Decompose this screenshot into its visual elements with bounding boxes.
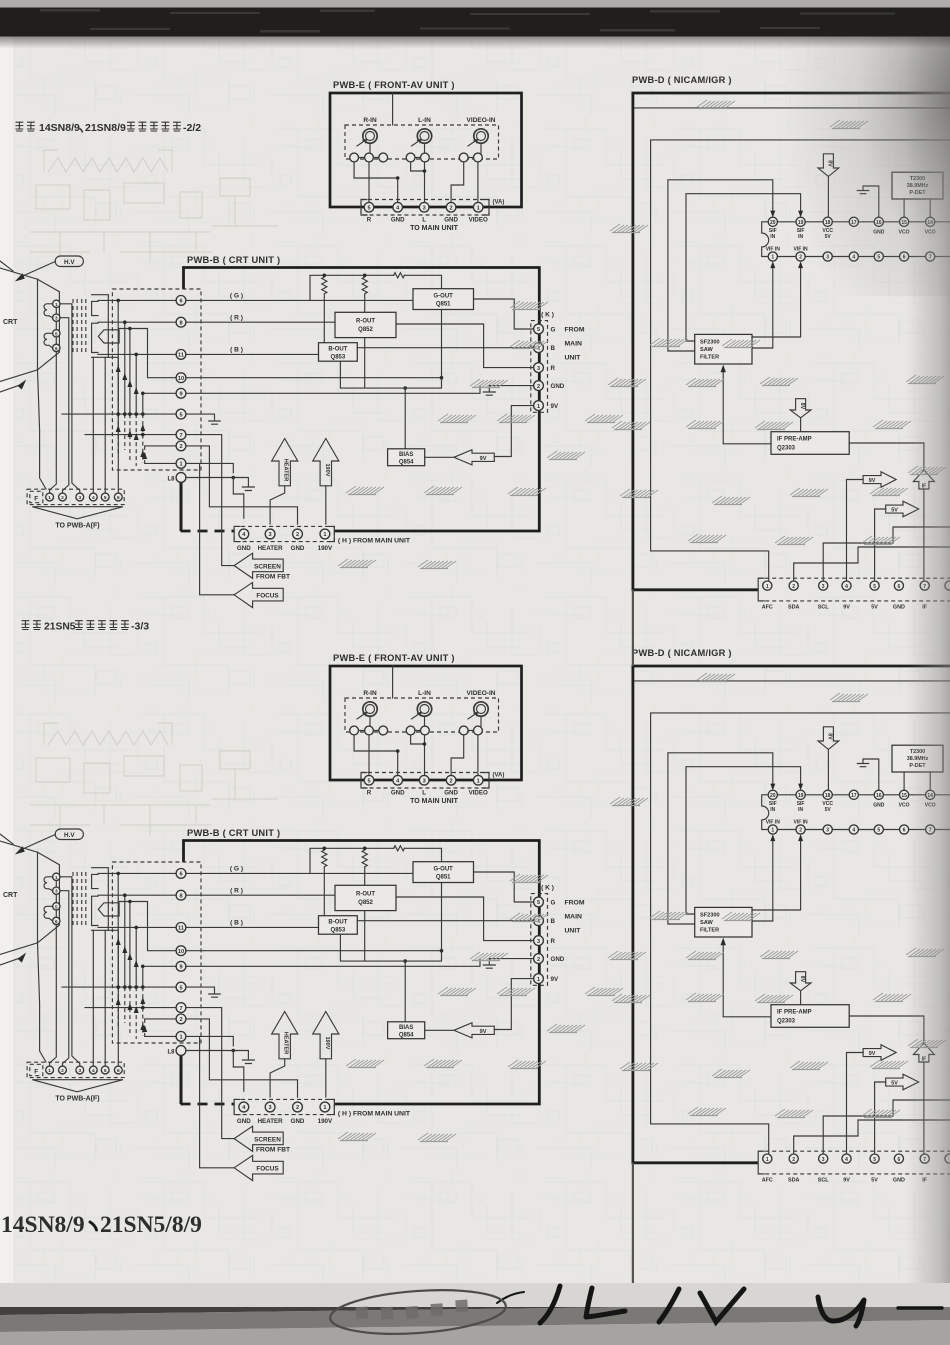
- svg-text:( R ): ( R ): [230, 315, 243, 322]
- wire K1 to 9V arrow: [494, 406, 533, 457]
- svg-text:3: 3: [822, 584, 825, 590]
- 8V supply arrow (preamp): [790, 399, 811, 418]
- svg-text:( B ): ( B ): [230, 347, 243, 354]
- IC pin 3: [823, 252, 832, 261]
- svg-text:BIAS: BIAS: [399, 452, 413, 458]
- connector K pin 4: [534, 343, 544, 353]
- IC pin 6: [900, 252, 909, 261]
- RCA jack L-IN: [412, 129, 432, 146]
- svg-text:3: 3: [423, 205, 426, 211]
- svg-text:1: 1: [766, 584, 769, 590]
- TO PWB-A(F) arrow: [32, 507, 123, 519]
- wire G line pin6: [98, 299, 413, 301]
- IC pin 7: [926, 252, 935, 261]
- svg-text:5: 5: [537, 327, 540, 333]
- H.V lead wire with arrowhead: [15, 262, 55, 282]
- riser arrowheads: [116, 365, 148, 459]
- connector F pin 3: [76, 493, 84, 501]
- PWB-B pin 7: [176, 430, 186, 440]
- wire pin 1 to SAW: [752, 261, 775, 348]
- socket wires to F4 F5 F6: [93, 357, 118, 492]
- svg-text:R: R: [367, 217, 372, 224]
- connector H pin 1: [320, 529, 330, 539]
- SAW filter loop wire to pin 19: [686, 194, 803, 341]
- transistor G-OUT Q851: [413, 289, 474, 310]
- wire 9V arrow to BIAS: [425, 456, 454, 458]
- connector K pin 3: [534, 363, 544, 373]
- connector F pin 6: [114, 493, 122, 501]
- svg-text:1: 1: [477, 205, 480, 211]
- CRT base pin 5: [53, 330, 60, 337]
- transistor B-OUT Q853: [319, 343, 358, 362]
- svg-text:PWB-E ( FRONT-AV UNIT ): PWB-E ( FRONT-AV UNIT ): [333, 80, 455, 90]
- svg-text:8V: 8V: [799, 403, 805, 410]
- wire pin 2 to SAW: [752, 261, 803, 337]
- terminal L8: [167, 473, 185, 483]
- svg-text:R: R: [551, 365, 556, 372]
- IC pin 4: [849, 252, 858, 261]
- CRT wire pin1 to F3: [60, 304, 80, 492]
- svg-text:CRT: CRT: [3, 319, 18, 326]
- svg-text:( K ): ( K ): [541, 312, 554, 319]
- connector H pin 4: [239, 529, 249, 539]
- svg-text:SCL: SCL: [818, 605, 829, 611]
- svg-text:-3/3: -3/3: [131, 621, 149, 633]
- connector VA pin 3: [419, 202, 429, 212]
- svg-text:FOCUS: FOCUS: [256, 593, 279, 600]
- svg-text:TO MAIN UNIT: TO MAIN UNIT: [410, 225, 458, 232]
- H.V terminal: [55, 256, 83, 267]
- svg-text:G-OUT: G-OUT: [434, 293, 454, 299]
- svg-text:SDA: SDA: [788, 605, 799, 611]
- svg-text:9V: 9V: [843, 605, 850, 611]
- funnel corner wire to F area: [38, 370, 47, 489]
- AFC bus wire: [651, 140, 950, 581]
- svg-text:B-OUT: B-OUT: [328, 346, 347, 352]
- wire IF arrow to strip pin 7: [923, 489, 925, 581]
- svg-text:L: L: [422, 217, 426, 224]
- svg-text:21SN5/8/9: 21SN5/8/9: [100, 1212, 202, 1238]
- svg-text:5: 5: [179, 412, 182, 418]
- svg-text:1: 1: [323, 532, 326, 538]
- svg-text:1: 1: [55, 302, 58, 307]
- svg-text:VIDEO: VIDEO: [469, 217, 488, 224]
- jack ground/signal terminal circles: [350, 153, 483, 162]
- CRT funnel flare (upper): [0, 261, 38, 279]
- CRT wire pin6 to F1: [50, 352, 57, 493]
- strip pin 1: [763, 581, 772, 590]
- IC pin 15: [900, 217, 909, 226]
- FOCUS from FBT arrow: [234, 582, 283, 607]
- svg-text:2: 2: [61, 495, 64, 501]
- IC pin 1: [768, 252, 777, 261]
- wire B-OUT to K4: [357, 347, 533, 349]
- wires T2300 to pins 15 14: [904, 199, 930, 217]
- wire K2 to ground: [483, 386, 533, 396]
- PWB-B pin 10: [176, 373, 186, 383]
- svg-text:5: 5: [367, 205, 370, 211]
- svg-text:VIDEO-IN: VIDEO-IN: [467, 117, 496, 124]
- PWB-B pin 8: [176, 317, 186, 327]
- ground for pin 16: [857, 186, 879, 217]
- wire 8V to pin 18: [827, 176, 829, 217]
- 8V supply arrow (VCC): [818, 154, 839, 177]
- wire heater to H3: [270, 486, 285, 524]
- svg-text:9: 9: [179, 392, 182, 398]
- PWB-B pin 11: [176, 350, 186, 360]
- svg-text:Q853: Q853: [331, 354, 346, 360]
- svg-text:9V: 9V: [551, 403, 559, 410]
- svg-text:TO PWB-A(F): TO PWB-A(F): [55, 523, 99, 530]
- strip pin 7: [920, 581, 929, 590]
- svg-text:3: 3: [78, 495, 81, 501]
- svg-text:5: 5: [873, 584, 876, 590]
- connector F strip: [27, 489, 124, 504]
- svg-text:Q852: Q852: [358, 327, 373, 333]
- strip pin 5: [870, 581, 879, 590]
- svg-text:4: 4: [845, 584, 848, 590]
- svg-text:5: 5: [104, 495, 107, 501]
- svg-text:190V: 190V: [318, 545, 333, 552]
- ghost print-through texture cluster: [30, 150, 278, 262]
- round service stamp: [329, 1285, 508, 1339]
- connector H dashed strip: [234, 526, 334, 541]
- PWB-E (FRONT-AV UNIT) board outline: [330, 93, 522, 207]
- svg-text:FILTER: FILTER: [700, 354, 719, 360]
- PWB-B pin 9: [176, 388, 186, 398]
- connector VA pin 4: [393, 202, 403, 212]
- svg-text:( G ): ( G ): [230, 293, 243, 300]
- 190V supply arrow: [313, 439, 339, 486]
- svg-text:2: 2: [537, 384, 540, 390]
- svg-text:8: 8: [179, 320, 182, 326]
- IC IX2300 body: [762, 222, 950, 257]
- svg-text:21SN8/9: 21SN8/9: [85, 122, 126, 134]
- svg-text:2: 2: [179, 444, 182, 450]
- SCL staircase wire: [823, 527, 950, 581]
- svg-text:GND: GND: [237, 545, 251, 552]
- svg-text:PWB-D ( NICAM/IGR ): PWB-D ( NICAM/IGR ): [632, 75, 732, 85]
- bottom connector strip dashed: [758, 578, 950, 601]
- IC pin 18: [823, 217, 832, 226]
- svg-text:11: 11: [178, 353, 184, 359]
- FROM MAIN UNIT label: [565, 327, 585, 362]
- connector K pin 5: [534, 324, 544, 334]
- lower bias rail: [340, 310, 441, 449]
- CRT drive input dashed box: [112, 289, 201, 470]
- svg-text:L8: L8: [167, 477, 175, 483]
- svg-text:6: 6: [898, 584, 901, 590]
- rail junction dots: [323, 274, 444, 390]
- 5V distribution arrow: [886, 501, 919, 517]
- socket dashed pin lines: [73, 299, 86, 354]
- svg-text:9V: 9V: [480, 456, 487, 462]
- connector K pin 1: [534, 401, 544, 411]
- svg-text:2: 2: [450, 205, 453, 211]
- IC pin 19: [796, 217, 805, 226]
- wire strip pin5 to 5V arrow: [875, 509, 886, 581]
- svg-text:3: 3: [269, 532, 272, 538]
- svg-text:14SN8/9: 14SN8/9: [39, 122, 80, 134]
- IC pin function labels: [766, 228, 936, 253]
- connector F pin 2: [59, 493, 67, 501]
- svg-text:SCREEN: SCREEN: [254, 563, 281, 570]
- svg-text:SAW: SAW: [700, 347, 713, 353]
- wire R line pin8: [98, 321, 335, 323]
- page crease line: [632, 590, 634, 1288]
- grid riser lines inside input box: [118, 300, 143, 414]
- IC pin 20: [768, 217, 777, 226]
- socket plug arrow: [98, 330, 119, 343]
- RCA jack VIDEO-IN: [468, 129, 488, 146]
- svg-text:PWB-B ( CRT UNIT ): PWB-B ( CRT UNIT ): [187, 255, 280, 265]
- resistor R (horizontal): [394, 273, 405, 278]
- svg-text:10: 10: [178, 376, 184, 382]
- IF pre-amp Q2303: [771, 432, 849, 455]
- wire R-OUT to K3: [396, 324, 534, 368]
- svg-text:3: 3: [55, 316, 58, 321]
- wire B line pin11: [98, 353, 319, 355]
- connector K dashed box: [531, 321, 548, 413]
- svg-text:IF PRE-AMP: IF PRE-AMP: [777, 437, 812, 443]
- wire 8V to preamp: [800, 418, 802, 432]
- strip pin 8 partial: [945, 581, 950, 590]
- connector H pin 3: [265, 529, 275, 539]
- strip pin 4: [842, 581, 851, 590]
- strip pin 6: [894, 581, 903, 590]
- junction dots on risers: [116, 299, 235, 480]
- PWB-B pin 6: [176, 296, 186, 306]
- PWB-B pin 2: [176, 441, 186, 451]
- connector F pin 5: [101, 493, 109, 501]
- wire pin10 riser to socket plug: [119, 329, 441, 378]
- svg-text:IN: IN: [770, 234, 775, 240]
- svg-text:UNIT: UNIT: [565, 355, 582, 362]
- ideographic comma: [90, 1222, 97, 1230]
- svg-text:GND: GND: [551, 383, 565, 390]
- PWB-E internal wires: [354, 143, 481, 202]
- svg-text:21SN5: 21SN5: [44, 622, 76, 633]
- connector F pin 1: [46, 493, 54, 501]
- PWB-D (NICAM/IGR) board outline: [633, 93, 950, 590]
- wire pin2 left stub: [145, 445, 176, 447]
- IC pin 17: [849, 217, 858, 226]
- svg-text:Q2303: Q2303: [777, 446, 796, 452]
- wire L8 to gnd and H4: [186, 478, 254, 519]
- wire 190V to H1: [325, 486, 327, 524]
- transistor BIAS Q854: [388, 449, 425, 466]
- connector H pin 2: [293, 529, 303, 539]
- connector VA pin 5: [364, 202, 374, 212]
- CRT heater coils: [44, 304, 53, 348]
- resistor (vertical, G feed): [322, 277, 327, 343]
- resistor (vertical, R feed): [362, 277, 367, 312]
- svg-text:HEATER: HEATER: [258, 545, 284, 552]
- svg-text:6: 6: [179, 299, 182, 305]
- IC pin 14: [926, 217, 935, 226]
- svg-text:5V: 5V: [871, 605, 878, 611]
- PWB-B thick left ground lead below L8: [180, 483, 183, 532]
- svg-text:5: 5: [55, 331, 58, 336]
- CRT base pin 6: [53, 344, 60, 351]
- junction dots: [396, 176, 400, 180]
- IC pin 2: [796, 252, 805, 261]
- CRT funnel flare (lower) with arrowhead: [0, 370, 38, 392]
- wire pin7 to screen riser: [85, 435, 234, 566]
- svg-text:MAIN: MAIN: [565, 341, 582, 348]
- SAW filter SF2300: [695, 334, 752, 364]
- svg-text:FROM FBT: FROM FBT: [256, 574, 290, 581]
- IF output arrow: [913, 470, 934, 489]
- svg-text:R-OUT: R-OUT: [356, 318, 375, 324]
- PWB-B pin 1: [176, 459, 186, 469]
- wire IF preamp to SAW with arrow: [721, 365, 772, 444]
- svg-text:4: 4: [92, 495, 95, 501]
- SCREEN from FBT arrow: [234, 553, 283, 578]
- transformer T2300 38.9MHz P-DET: [892, 172, 943, 199]
- CRT base pin 3: [53, 314, 60, 321]
- svg-text:SF2300: SF2300: [700, 339, 720, 345]
- svg-text:6: 6: [55, 346, 58, 351]
- transistor R-OUT Q852: [335, 312, 396, 337]
- wire G-OUT to K5: [474, 299, 534, 329]
- svg-text:L-IN: L-IN: [418, 117, 431, 124]
- right edge scan shadow: [906, 36, 950, 1294]
- 9V feed arrow: [454, 450, 494, 465]
- top black scan bar: [0, 8, 950, 37]
- SAW filter loop wire to pin 20: [668, 180, 775, 351]
- bottom scan zone: [0, 1283, 950, 1345]
- svg-text:Q854: Q854: [399, 459, 414, 465]
- svg-text:HEATER: HEATER: [283, 459, 289, 482]
- HEATER supply arrow: [272, 439, 298, 486]
- svg-text:3: 3: [537, 366, 540, 372]
- svg-text:1: 1: [179, 462, 182, 468]
- wire pin2 to heater gnd pin: [186, 446, 298, 524]
- connector F pin 4: [89, 493, 97, 501]
- svg-text:14SN8/9: 14SN8/9: [1, 1212, 85, 1238]
- connector VA pin 1: [473, 202, 483, 212]
- VA pin labels: [367, 217, 488, 224]
- svg-text:2: 2: [792, 584, 795, 590]
- handwriting marks: [497, 1286, 942, 1326]
- diagram 1 title: [16, 122, 202, 134]
- supply rail with resistors: [310, 275, 442, 300]
- svg-text:GND: GND: [391, 217, 405, 224]
- input jacks dashed enclosure: [345, 125, 499, 159]
- svg-text:2: 2: [296, 532, 299, 538]
- svg-text:1: 1: [537, 404, 540, 410]
- CRT pin link segments: [55, 308, 57, 345]
- top scan margin strip: [0, 0, 950, 8]
- dashed riser continuations with arrows: [118, 414, 145, 466]
- svg-text:Q851: Q851: [436, 301, 451, 307]
- svg-text:20: 20: [770, 220, 776, 226]
- svg-text:AFC: AFC: [762, 605, 773, 611]
- inner bus wire upper: [634, 107, 950, 109]
- PWB-B bottom dashed thick border: [181, 530, 235, 533]
- CRT socket box: [92, 295, 109, 358]
- H pin labels: [237, 545, 333, 552]
- svg-text:190V: 190V: [324, 463, 330, 476]
- socket contact bracket lower: [92, 323, 98, 352]
- CRT base pin 1: [53, 300, 60, 307]
- IC pin 16: [874, 217, 883, 226]
- svg-text:6: 6: [117, 495, 120, 501]
- second diagram copy (21SN5): [0, 648, 950, 1184]
- svg-text:F: F: [34, 496, 38, 503]
- connector VA pin 2: [446, 202, 456, 212]
- svg-text:B: B: [551, 345, 556, 352]
- connector K pin 2: [534, 381, 544, 391]
- svg-text:-2/2: -2/2: [183, 122, 201, 134]
- svg-text:5V: 5V: [891, 508, 898, 514]
- wire pin5 bus with socket feed: [62, 414, 220, 424]
- CRT wire pin3 to F2: [60, 318, 69, 492]
- CRT neck trapezoid: [38, 279, 60, 370]
- 9V distribution arrow: [863, 472, 896, 488]
- connector (VA) strip to main unit: [361, 200, 489, 216]
- wire pin1 and focus riser: [145, 463, 234, 594]
- diagram 2 title: [22, 621, 150, 633]
- svg-text:GND: GND: [444, 217, 458, 224]
- svg-text:H.V: H.V: [64, 259, 75, 266]
- svg-text:VIF IN: VIF IN: [766, 247, 781, 253]
- svg-text:1: 1: [48, 495, 51, 501]
- wire preamp out to IF arrow and pin7: [849, 443, 924, 470]
- RCA jack R-IN: [357, 129, 377, 146]
- wire stub from top border: [392, 93, 394, 125]
- svg-text:( H ) FROM MAIN UNIT: ( H ) FROM MAIN UNIT: [338, 538, 411, 545]
- socket contact bracket upper: [92, 301, 98, 315]
- PWB-B (CRT UNIT) board outline: [184, 268, 540, 532]
- svg-text:FROM: FROM: [565, 327, 585, 334]
- scan noise hatch marks: [338, 100, 946, 569]
- svg-text:9V: 9V: [869, 478, 876, 484]
- svg-text:GND: GND: [291, 545, 305, 552]
- wire strip pin4 to 9V arrow: [847, 480, 864, 582]
- wire pin9 to gnd rail: [143, 386, 480, 393]
- SDA staircase wire: [794, 547, 950, 581]
- svg-text:1: 1: [771, 255, 774, 261]
- PWB-B pin 5: [176, 409, 186, 419]
- svg-text:GND: GND: [893, 605, 905, 611]
- svg-text:R-IN: R-IN: [363, 117, 377, 124]
- strip pin labels: [762, 605, 928, 611]
- strip pin 3: [819, 581, 828, 590]
- svg-text:(VA): (VA): [493, 200, 505, 206]
- IC pin 5: [874, 252, 883, 261]
- strip pin 2: [789, 581, 798, 590]
- svg-text:G: G: [551, 327, 556, 334]
- svg-text:7: 7: [179, 433, 182, 439]
- K pin signal labels: [551, 327, 565, 411]
